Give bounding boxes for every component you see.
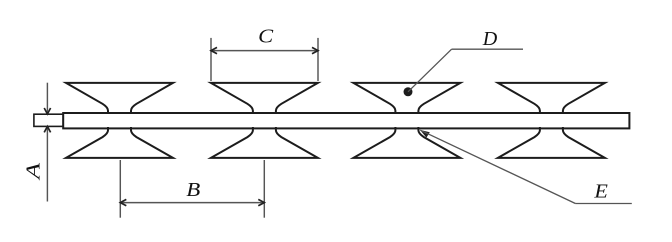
dimension B line [120, 202, 264, 204]
dimension B right arrow (points right) [258, 199, 264, 205]
dimension C right arrow (points right) [312, 47, 318, 53]
leader E horizontal line [575, 203, 631, 205]
leader D dot on barb 3 [404, 87, 413, 96]
barb cluster 1 bottom [66, 127, 173, 158]
svg-text:B: B [186, 179, 200, 201]
barb cluster 2 bottom [211, 127, 318, 158]
dimension B right extension line [263, 160, 265, 218]
barb cluster 2 top [211, 83, 318, 114]
dimension B left extension line [119, 160, 121, 218]
leader D slanted line [408, 49, 452, 92]
svg-text:C: C [258, 26, 274, 48]
svg-text:D: D [482, 28, 498, 50]
barb cluster 4 bottom [498, 127, 605, 158]
barb cluster 1 top [66, 83, 173, 114]
svg-text:A: A [23, 162, 45, 182]
dimension A lower arrow (points up) [44, 126, 50, 132]
dimension B left arrow (points left) [120, 199, 126, 205]
dimension A line lower segment [46, 126, 48, 201]
dimension C left arrow (points left) [211, 47, 217, 53]
barb cluster 3 bottom [353, 127, 460, 158]
tape strip body [63, 113, 629, 128]
dimension C left extension line [210, 38, 212, 81]
wire core end (left stub rectangle) [34, 114, 63, 126]
dimension A upper arrow (points down) [44, 108, 50, 114]
svg-text:E: E [593, 180, 608, 202]
dimension A line upper segment [46, 83, 48, 114]
leader D horizontal line [452, 48, 523, 50]
barb cluster 3 top [353, 83, 460, 114]
dimension C right extension line [317, 38, 319, 81]
leader E slanted line [420, 130, 575, 203]
leader E arrowhead at tape edge [420, 130, 430, 138]
barb cluster 4 top [498, 83, 605, 114]
dimension C line [211, 50, 318, 52]
